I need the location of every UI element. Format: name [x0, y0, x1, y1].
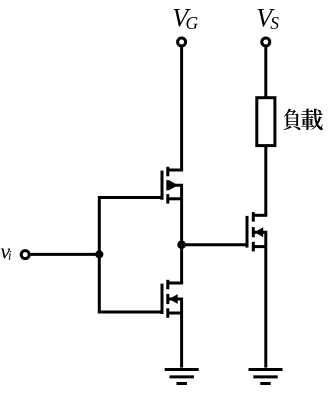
svg-text:G: G — [186, 13, 199, 33]
svg-text:S: S — [270, 13, 279, 33]
svg-text:i: i — [8, 248, 12, 263]
